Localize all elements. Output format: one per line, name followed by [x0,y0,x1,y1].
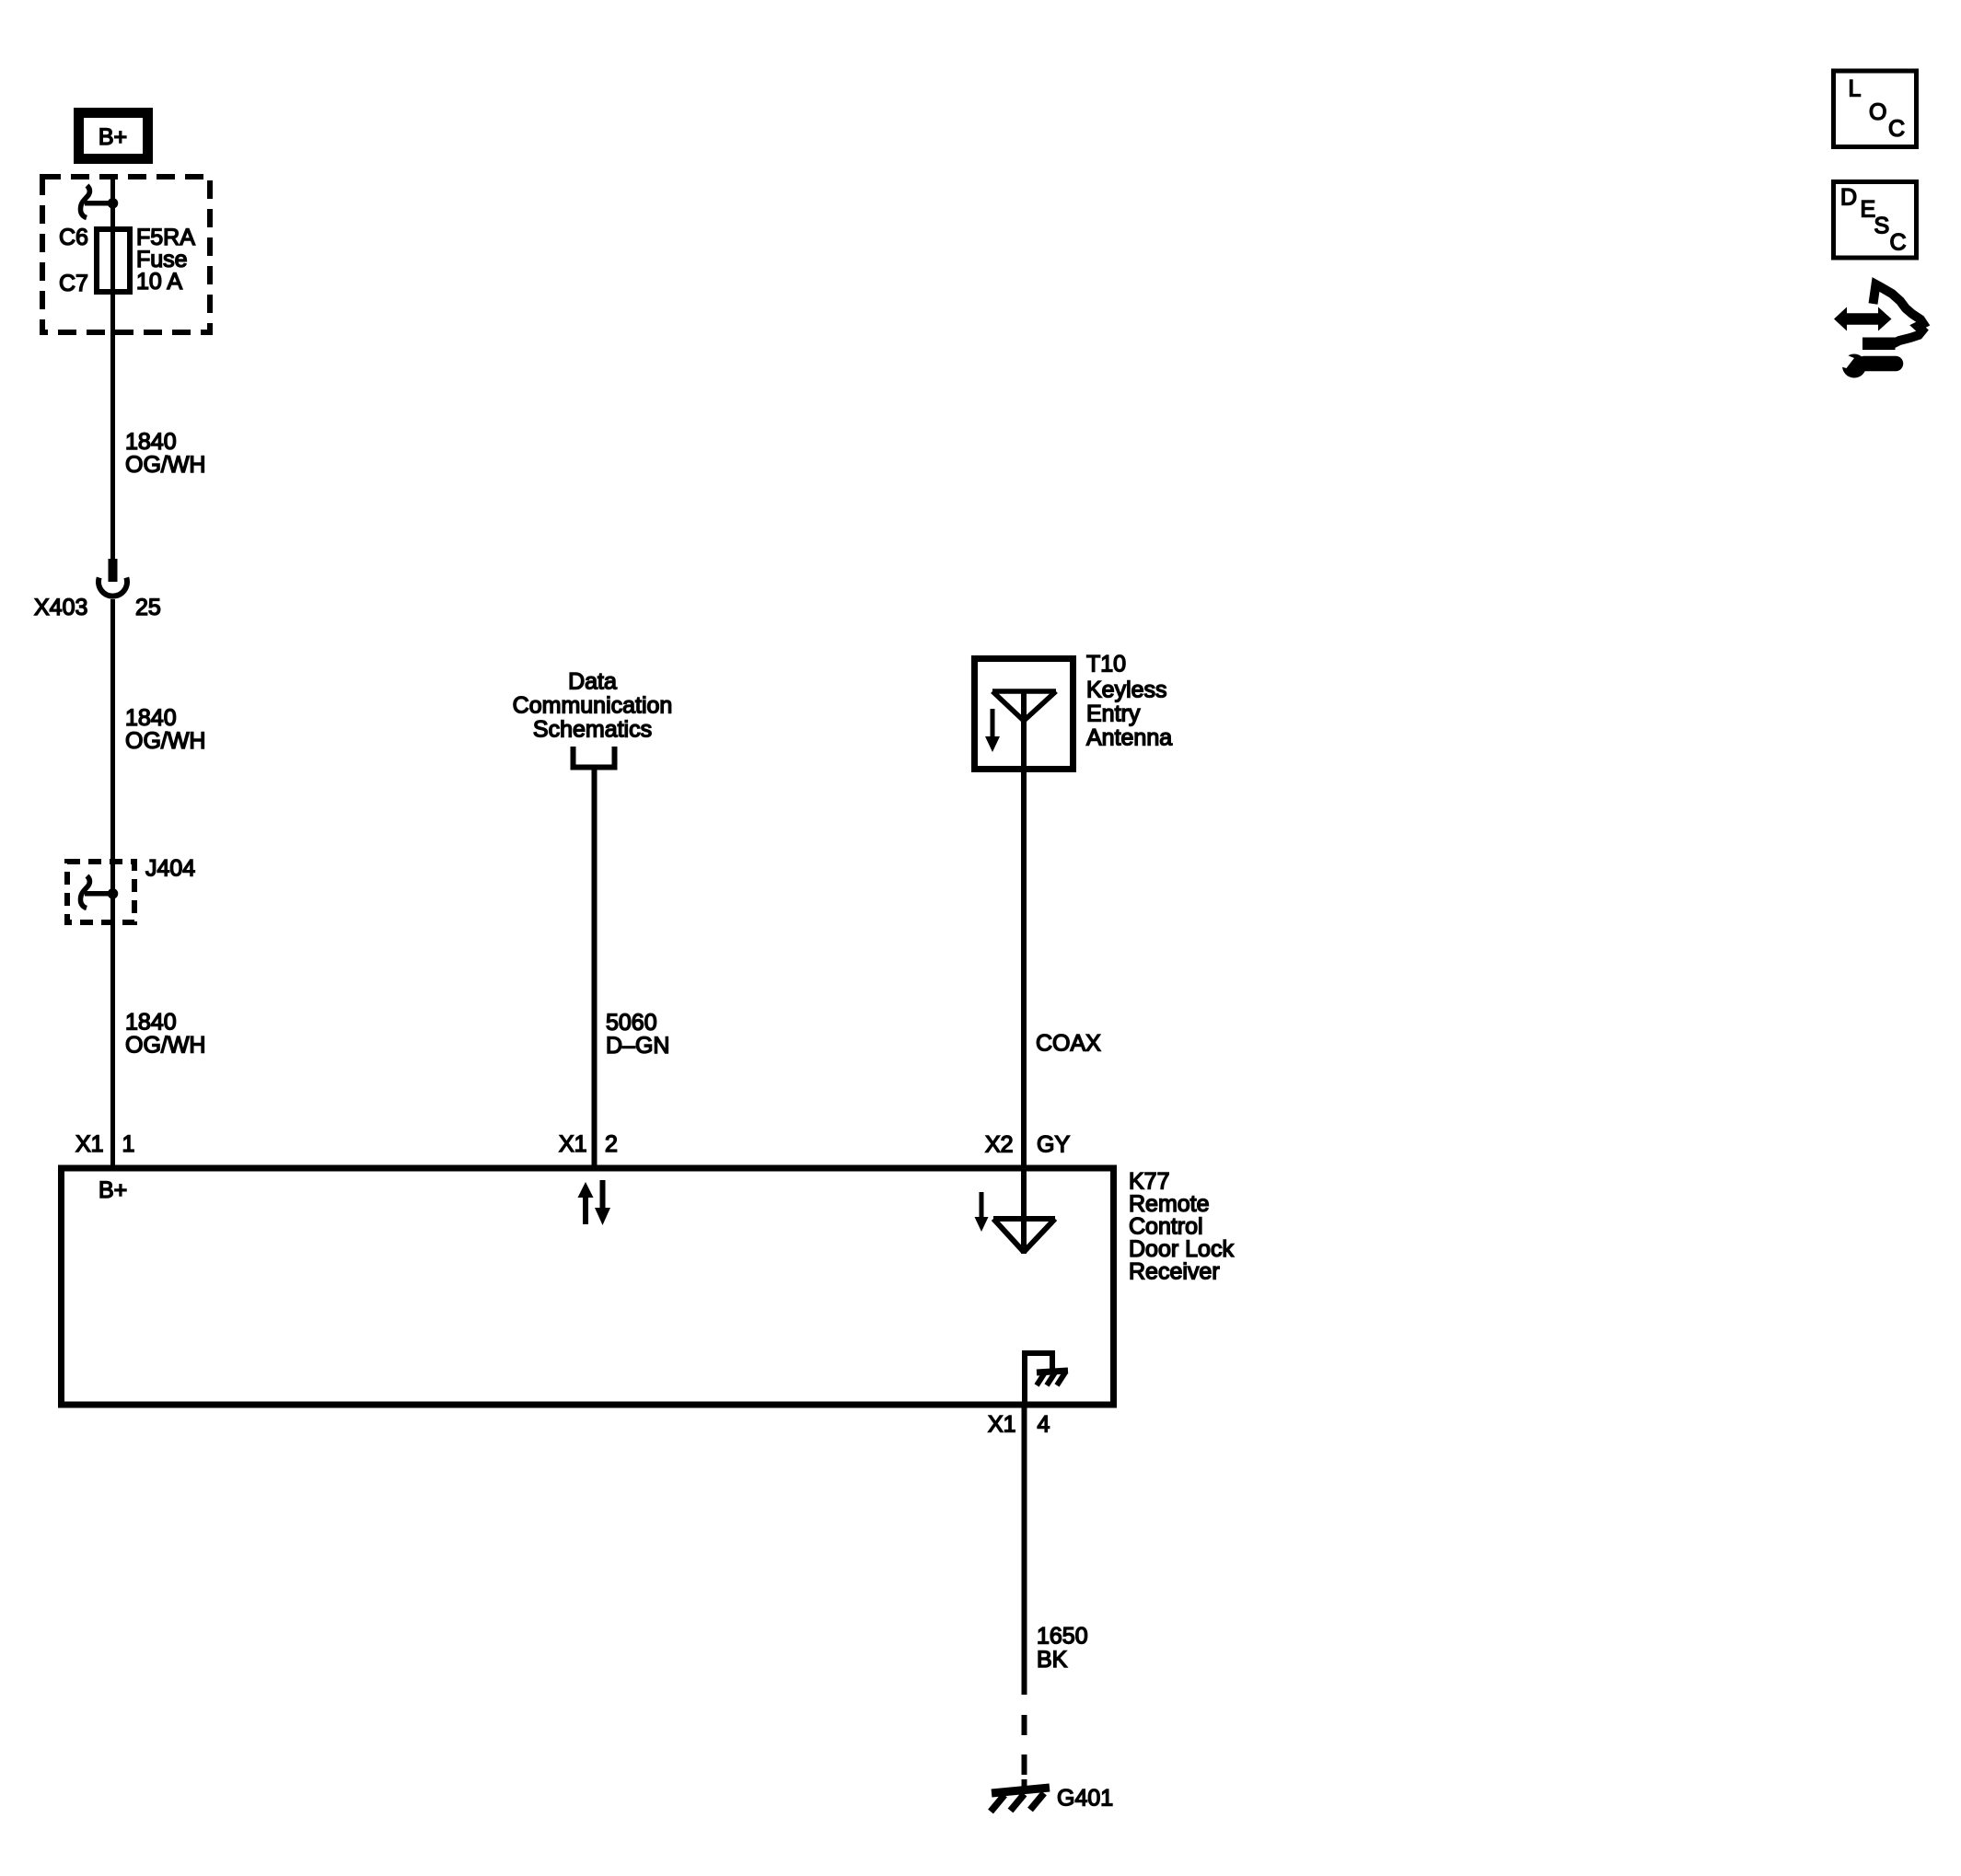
svg-text:OG/WH: OG/WH [125,728,206,754]
svg-text:10 A: 10 A [136,269,182,295]
svg-text:X1: X1 [988,1412,1016,1438]
svg-text:1840: 1840 [125,429,177,455]
svg-text:1840: 1840 [125,1010,177,1036]
svg-text:Communication: Communication [513,693,673,719]
svg-text:C6: C6 [59,225,88,250]
svg-text:2: 2 [605,1131,618,1157]
svg-text:Data: Data [568,669,617,695]
svg-text:1: 1 [122,1131,135,1157]
svg-text:X403: X403 [34,595,87,620]
svg-text:S: S [1874,214,1890,239]
svg-text:Receiver: Receiver [1129,1259,1220,1285]
svg-text:C: C [1888,116,1905,142]
svg-text:C: C [1890,230,1907,256]
svg-text:D: D [1840,185,1857,211]
svg-text:B+: B+ [99,124,127,150]
svg-text:BK: BK [1037,1647,1068,1673]
svg-text:J404: J404 [145,856,195,882]
svg-text:T10: T10 [1086,652,1126,677]
svg-text:5060: 5060 [606,1010,657,1036]
svg-text:25: 25 [135,595,161,620]
svg-text:OG/WH: OG/WH [125,452,206,478]
svg-text:GY: GY [1037,1132,1070,1158]
svg-text:X1: X1 [559,1131,587,1157]
svg-text:G401: G401 [1057,1786,1113,1812]
svg-text:O: O [1869,99,1886,125]
svg-text:D–GN: D–GN [606,1033,669,1059]
svg-text:X1: X1 [75,1131,104,1157]
svg-text:C7: C7 [59,271,88,296]
svg-text:B+: B+ [99,1177,127,1203]
svg-text:Antenna: Antenna [1086,725,1172,751]
svg-text:1840: 1840 [125,705,177,731]
svg-text:4: 4 [1038,1412,1050,1438]
svg-text:1650: 1650 [1037,1624,1088,1650]
svg-text:COAX: COAX [1036,1031,1101,1057]
svg-text:Schematics: Schematics [533,717,652,743]
svg-text:Entry: Entry [1086,701,1141,727]
svg-text:Keyless: Keyless [1086,677,1167,703]
svg-text:L: L [1849,76,1862,102]
svg-text:X2: X2 [985,1132,1014,1158]
svg-text:OG/WH: OG/WH [125,1033,206,1059]
